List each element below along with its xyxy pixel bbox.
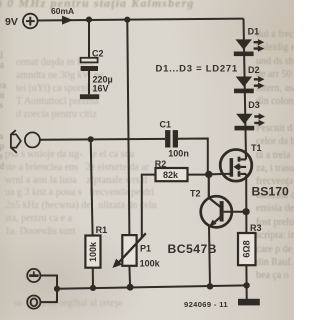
svg-text:D1...D3 = LD271: D1...D3 = LD271 <box>156 64 238 75</box>
svg-text:60mA: 60mA <box>51 6 74 16</box>
svg-text:T1: T1 <box>251 143 262 153</box>
svg-text:T2: T2 <box>190 189 201 199</box>
svg-text:100k: 100k <box>140 259 161 269</box>
svg-text:9V: 9V <box>5 16 18 28</box>
svg-text:D2: D2 <box>248 65 260 75</box>
svg-text:82k: 82k <box>163 170 179 180</box>
svg-text:R3: R3 <box>250 223 262 233</box>
svg-text:BC547B: BC547B <box>168 242 217 256</box>
svg-text:R1: R1 <box>96 225 108 235</box>
svg-text:R2: R2 <box>155 159 167 169</box>
svg-text:100k: 100k <box>88 241 98 262</box>
svg-text:C2: C2 <box>92 49 104 59</box>
svg-text:BS170: BS170 <box>252 185 289 199</box>
svg-text:P1: P1 <box>140 244 151 254</box>
svg-text:D3: D3 <box>248 100 260 110</box>
svg-text:D1: D1 <box>248 27 260 37</box>
svg-text:16V: 16V <box>93 84 109 94</box>
svg-text:924069 - 11: 924069 - 11 <box>184 300 228 309</box>
svg-text:C1: C1 <box>160 120 172 130</box>
svg-text:100n: 100n <box>168 149 189 159</box>
svg-text:6Ω8: 6Ω8 <box>242 240 252 257</box>
